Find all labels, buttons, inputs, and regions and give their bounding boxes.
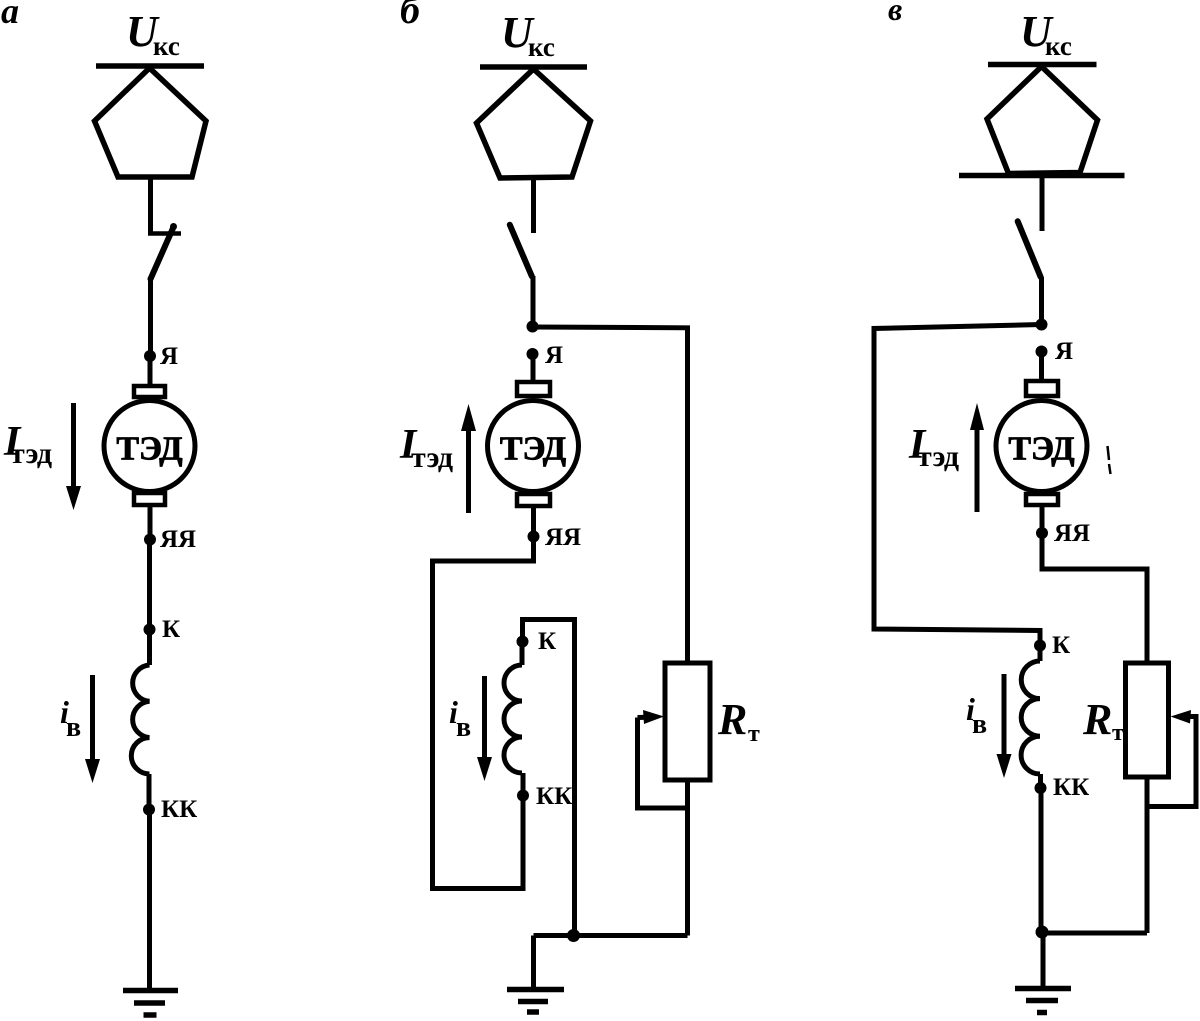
rheostat wire bottom (в)	[1145, 777, 1150, 933]
motor brush top (б)	[517, 382, 550, 396]
wire motor to node ЯЯ (в)	[1040, 507, 1045, 533]
node ЯЯ (а)	[144, 534, 156, 546]
current arrow I_ТЭД (б)	[461, 404, 476, 513]
node КК (б)	[517, 790, 529, 802]
svg-text:в: в	[66, 712, 81, 743]
svg-text:тэд: тэд	[917, 440, 959, 473]
wire node ЯЯ to node К (а)	[147, 540, 152, 630]
wire motor to node ЯЯ (б)	[531, 508, 536, 537]
svg-text:R: R	[717, 695, 747, 744]
node junction top (б)	[527, 321, 539, 333]
current arrow i_в (в)	[997, 674, 1012, 778]
svg-text:т: т	[1112, 720, 1124, 746]
svg-text:ТЭД: ТЭД	[116, 431, 182, 468]
node КК (в)	[1035, 782, 1047, 794]
motor ТЭД circle (а)	[104, 401, 195, 492]
motor brush bottom (а)	[134, 493, 165, 505]
wire coil to node КК (а)	[147, 774, 152, 810]
rheostat R_т (в)	[1126, 663, 1169, 777]
field winding coil (б)	[504, 665, 522, 773]
node К (а)	[144, 624, 156, 636]
svg-text:R: R	[1082, 695, 1112, 744]
wire coil to node КК (в)	[1038, 774, 1043, 788]
current arrow I_ТЭД (в)	[970, 403, 984, 512]
node Я (в)	[1036, 346, 1048, 358]
svg-text:ЯЯ: ЯЯ	[1054, 520, 1090, 547]
node Я (б)	[527, 348, 539, 360]
node К (в)	[1034, 640, 1046, 652]
svg-text:ТЭД: ТЭД	[1008, 431, 1074, 468]
wire node КК to ground (а)	[147, 810, 152, 991]
label R_т (в)	[1082, 695, 1124, 746]
node ЯЯ (б)	[528, 531, 540, 543]
field winding coil (в)	[1021, 661, 1040, 774]
svg-text:ЯЯ: ЯЯ	[160, 526, 196, 553]
contact wire (в)	[988, 62, 1097, 68]
svg-text:тэд: тэд	[10, 437, 52, 470]
roof line (в)	[959, 173, 1125, 179]
pantograph (б)	[477, 69, 591, 178]
node К (б)	[517, 636, 529, 648]
svg-text:К: К	[538, 628, 556, 655]
wire node Я to motor (а)	[148, 356, 153, 384]
wire node К to coil (а)	[147, 630, 152, 666]
pantograph (в)	[987, 67, 1098, 174]
ground (в)	[1015, 989, 1071, 1013]
field winding coil (а)	[131, 665, 149, 774]
svg-text:кс: кс	[528, 32, 555, 62]
rheostat R_т (б)	[665, 663, 710, 780]
svg-text:КК: КК	[536, 783, 572, 810]
bottom bus wire (в)	[1042, 931, 1147, 936]
svg-text:КК: КК	[1053, 774, 1089, 801]
svg-text:тэд: тэд	[411, 441, 453, 474]
label I_ТЭД (в)	[908, 422, 959, 473]
motor ТЭД circle (в)	[996, 401, 1087, 492]
wire coil to node КК (б)	[521, 773, 526, 796]
svg-text:в: в	[456, 712, 471, 743]
stray wire fragment (в)	[1108, 446, 1111, 474]
svg-text:а: а	[1, 0, 19, 31]
contact wire (а)	[96, 63, 204, 69]
wire motor to node ЯЯ (а)	[148, 507, 153, 540]
switch blade (в)	[1018, 221, 1041, 276]
label I_ТЭД (б)	[399, 422, 453, 474]
wire junction to node К bypass (в)	[874, 325, 1042, 646]
label I_ТЭД (а)	[3, 419, 52, 470]
current arrow I_ТЭД (а)	[66, 403, 81, 510]
wire node Я to motor (в)	[1039, 352, 1044, 383]
svg-text:б: б	[400, 0, 422, 32]
motor brush top (в)	[1026, 381, 1058, 396]
svg-text:кс: кс	[1045, 31, 1072, 61]
wire node К to coil (б)	[520, 642, 525, 666]
label i_в (б)	[449, 694, 471, 743]
svg-text:Я: Я	[545, 342, 563, 369]
wire pantograph to switch (б)	[531, 178, 536, 233]
svg-text:К: К	[1052, 632, 1070, 659]
wire switch to junction (в)	[1039, 277, 1044, 325]
wire switch to node Я (а)	[148, 279, 153, 356]
svg-text:К: К	[162, 616, 180, 643]
node junction bottom (в)	[1036, 926, 1049, 939]
ground (б)	[507, 990, 564, 1013]
node junction bottom (б)	[567, 929, 580, 942]
rheostat tap arrow (в)	[1147, 710, 1196, 807]
wire ЯЯ to КК bypass (б)	[433, 537, 534, 889]
ground (а)	[123, 991, 178, 1016]
pantograph (а)	[95, 68, 207, 177]
wire switch to junction (б)	[531, 276, 536, 327]
wire К to bottom bus (б)	[523, 620, 575, 936]
motor ТЭД circle (б)	[488, 401, 579, 492]
wire node К to coil (в)	[1038, 646, 1043, 662]
wire ЯЯ to rheostat (в)	[1042, 533, 1147, 663]
current arrow i_в (б)	[477, 676, 492, 781]
svg-text:кс: кс	[153, 31, 180, 61]
svg-text:в: в	[972, 709, 987, 740]
svg-text:в: в	[888, 0, 902, 27]
switch blade (б)	[510, 225, 532, 276]
wire junction to rheostat (б)	[533, 327, 688, 663]
wire pantograph to switch (а)	[148, 177, 153, 234]
svg-text:Я: Я	[1055, 338, 1073, 365]
node junction top (в)	[1036, 319, 1048, 331]
wire node КК to junction (в)	[1039, 788, 1044, 932]
switch contact bar (а)	[148, 231, 181, 236]
bottom bus wire (б)	[534, 933, 688, 938]
node ЯЯ (в)	[1036, 527, 1048, 539]
svg-text:ТЭД: ТЭД	[500, 431, 566, 468]
node Я (а)	[144, 350, 156, 362]
contact wire (б)	[480, 64, 587, 70]
node КК (а)	[143, 804, 155, 816]
wire junction to ground (в)	[1041, 932, 1046, 988]
motor brush bottom (б)	[517, 494, 550, 506]
motor brush bottom (в)	[1026, 494, 1058, 505]
svg-text:ЯЯ: ЯЯ	[545, 524, 581, 551]
rheostat tap arrow (б)	[638, 710, 688, 808]
label i_в (а)	[60, 694, 81, 743]
label R_т (б)	[717, 695, 760, 747]
switch blade (а)	[151, 227, 174, 279]
motor brush top (а)	[134, 386, 165, 397]
svg-text:Я: Я	[160, 343, 178, 370]
svg-text:КК: КК	[161, 796, 197, 823]
label i_в (в)	[966, 691, 987, 740]
current arrow i_в (а)	[85, 675, 100, 783]
wire node Я to motor (б)	[531, 354, 536, 382]
rheostat wire bottom (б)	[685, 780, 690, 936]
wire junction to ground (б)	[531, 936, 536, 990]
svg-text:т: т	[748, 721, 760, 747]
wire pantograph to switch (в)	[1040, 176, 1045, 231]
